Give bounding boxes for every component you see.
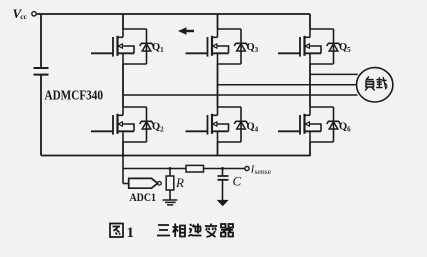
svg-text:1: 1 [127,225,135,241]
wire Q2 source to rail [122,142,124,156]
phase B line to load [218,84,357,86]
ADC1 block [129,178,158,188]
ground under R [163,200,178,205]
capacitor C (sense filter) [218,176,229,180]
top rail [36,13,310,15]
resistor (series, sense filter) [186,165,204,172]
char 负 [366,77,375,90]
char 变 [205,224,217,238]
node phase C vertical [309,64,311,107]
phase C line to load [310,73,358,75]
char 相 [173,224,186,238]
leg 3 verticals [309,14,311,29]
terminal Isense [245,166,249,170]
wire C to ground [222,180,224,201]
transistor Q1 (MOSFET with freewheel diode) [91,29,153,64]
capacitor (DC bus) [34,68,49,75]
transistor Q5 (MOSFET with freewheel diode) [278,29,340,64]
transistor Q4 (MOSFET with freewheel diode) [186,107,248,142]
wire left branch lower [40,75,42,156]
svg-text:ADMCF340: ADMCF340 [45,88,104,103]
wire left branch upper [40,14,42,68]
char 器 [221,224,233,237]
label 负载 (load) [366,77,387,90]
wire ADC1 input [123,183,129,185]
wire R to ground [169,190,171,200]
sense network [123,156,249,206]
svg-text:C: C [233,174,242,189]
leg 2 verticals [217,14,219,29]
node phase B vertical [217,64,219,107]
char 三 [157,225,170,236]
leg 1 verticals [122,14,124,29]
junction C [221,167,224,170]
Vcc terminal [32,12,36,16]
wire C drop [222,169,224,177]
wire shunt drop [122,156,124,184]
wire R drop [169,169,171,177]
caption 三相逆变器 [157,224,233,238]
caption 图 1 [110,224,123,238]
junction R [169,167,172,170]
transistor Q2 (MOSFET with freewheel diode) [91,107,153,142]
svg-text:R: R [175,175,184,190]
transistor Q6 (MOSFET with freewheel diode) [278,107,340,142]
resistor R [166,176,174,190]
phase A line to load [123,94,358,96]
wire Q6 source to rail [309,142,311,156]
current direction arrow annotation [178,27,187,34]
svg-text:ADC1: ADC1 [130,190,157,204]
sense rail [123,168,245,170]
svg-text:sense: sense [255,167,272,176]
wire Q4 source to rail [217,142,219,156]
transistor Q3 (MOSFET with freewheel diode) [186,29,248,64]
svg-text:cc: cc [20,12,27,21]
char 逆 [189,224,202,237]
load (motor) circle [357,68,393,102]
node phase A vertical [122,64,124,107]
bottom rail [41,155,311,157]
char 载 [377,78,387,89]
ground (arrow style) under C [218,200,228,205]
